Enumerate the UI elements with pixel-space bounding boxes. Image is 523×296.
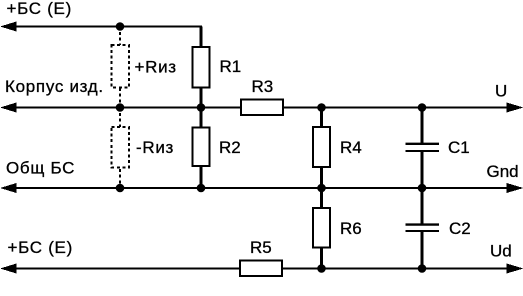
svg-text:C1: C1 xyxy=(448,138,470,157)
svg-text:R2: R2 xyxy=(219,138,241,157)
node rail3 x422 xyxy=(418,184,427,193)
capacitor C2 xyxy=(406,188,471,269)
svg-text:-Rиз: -Rиз xyxy=(136,138,174,157)
svg-text:Ud: Ud xyxy=(490,242,512,261)
wire rail2 Корпус изд. / U xyxy=(0,103,523,113)
resistor +Rиз (dashed) xyxy=(112,27,177,108)
resistor -Rиз (dashed) xyxy=(112,108,175,189)
resistor R6 xyxy=(313,188,362,269)
wire rail3 Общ БС / Gnd xyxy=(0,183,523,193)
svg-text:R1: R1 xyxy=(220,57,242,76)
capacitor C1 xyxy=(406,108,470,189)
svg-text:R5: R5 xyxy=(250,238,272,257)
resistor R2 xyxy=(193,108,241,189)
svg-text:+Rиз: +Rиз xyxy=(135,58,177,77)
node rail4 x321 xyxy=(317,264,326,273)
node rail2 x120 xyxy=(116,103,125,112)
node rail4 x422 xyxy=(418,264,427,273)
resistor R4 xyxy=(313,108,362,189)
svg-text:+БС (Е): +БС (Е) xyxy=(8,238,73,257)
wire rail1 +БС(Е) top xyxy=(0,22,202,32)
svg-text:Общ БС: Общ БС xyxy=(6,159,75,178)
wire rail4 +БС(Е) bottom / Ud xyxy=(0,264,523,274)
node rail2 x201 xyxy=(197,103,206,112)
svg-text:Gnd: Gnd xyxy=(487,162,519,181)
svg-text:C2: C2 xyxy=(449,219,471,238)
node rail3 x201 xyxy=(197,184,206,193)
node rail1 x120 xyxy=(116,22,125,31)
svg-text:R3: R3 xyxy=(252,77,274,96)
resistor R5 xyxy=(240,238,282,276)
node rail3 x120 xyxy=(116,184,125,193)
svg-text:+БС (Е): +БС (Е) xyxy=(7,0,72,18)
node rail2 x321 xyxy=(317,103,326,112)
svg-text:R6: R6 xyxy=(340,219,362,238)
resistor R3 xyxy=(241,77,283,115)
resistor R1 xyxy=(193,27,242,108)
node rail3 x321 xyxy=(317,184,326,193)
svg-text:U: U xyxy=(495,82,507,101)
svg-text:Корпус изд.: Корпус изд. xyxy=(5,77,104,96)
node rail2 x422 xyxy=(418,103,427,112)
svg-text:R4: R4 xyxy=(340,138,362,157)
